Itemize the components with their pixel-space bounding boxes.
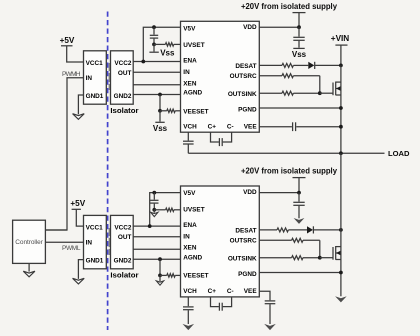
wire PWMH to IN bbox=[45, 78, 83, 230]
junction V5V/ENA (bottom) bbox=[148, 224, 152, 228]
ground arrow (controller) bbox=[23, 271, 35, 277]
svg-text:VCH: VCH bbox=[183, 124, 197, 131]
svg-text:+20V from isolated supply: +20V from isolated supply bbox=[241, 167, 337, 176]
capacitor C6 (V5V bypass bottom) bbox=[150, 193, 158, 210]
junction gate node bbox=[318, 91, 322, 95]
svg-text:IN: IN bbox=[86, 240, 93, 247]
isolator U1 left box bbox=[84, 51, 107, 104]
svg-text:ENA: ENA bbox=[183, 57, 197, 64]
junction DESAT/+VIN bbox=[339, 64, 343, 68]
wire V5V rail bbox=[143, 27, 180, 61]
gate driver IC U2 bbox=[181, 21, 260, 132]
svg-text:VEESET: VEESET bbox=[183, 109, 208, 116]
capacitor C3 (VEE) bbox=[259, 122, 341, 131]
transistor Q1 bbox=[333, 65, 341, 153]
svg-text:OUT: OUT bbox=[118, 70, 132, 77]
junction VDD node bbox=[297, 25, 301, 29]
svg-text:PWMH: PWMH bbox=[62, 71, 81, 78]
ground arrow (GND1 top) bbox=[73, 114, 85, 120]
svg-text:GND1: GND1 bbox=[86, 258, 104, 265]
junction DESAT/drain (bottom) bbox=[339, 228, 343, 232]
junction VEESET node bbox=[158, 109, 162, 113]
wire XEN bbox=[133, 84, 180, 86]
wire GND2-AGND bbox=[133, 94, 180, 96]
junction AGND node (bottom) bbox=[158, 257, 162, 261]
svg-text:DESAT: DESAT bbox=[235, 227, 256, 234]
Vss symbol (VEESET) bbox=[153, 111, 168, 133]
svg-text:UVSET: UVSET bbox=[183, 207, 204, 214]
svg-text:OUTSINK: OUTSINK bbox=[228, 256, 257, 263]
wire VDD (bottom) bbox=[259, 192, 299, 194]
svg-text:IN: IN bbox=[86, 75, 93, 82]
svg-text:VCC2: VCC2 bbox=[114, 60, 131, 67]
svg-text:DESAT: DESAT bbox=[235, 63, 256, 70]
svg-text:XEN: XEN bbox=[183, 245, 197, 252]
resistor R9 (OUTSRC bottom) bbox=[259, 238, 320, 242]
svg-text:VCC1: VCC1 bbox=[86, 60, 103, 67]
junction V5V/ENA bbox=[141, 60, 145, 64]
diode D2 (DESAT bottom) bbox=[307, 226, 341, 233]
wire gate bbox=[320, 92, 333, 94]
+20V supply bar (bottom) bbox=[293, 178, 306, 193]
wire OUT-IN (bottom) bbox=[133, 236, 180, 238]
capacitor C8 (VEE bottom) bbox=[259, 291, 275, 324]
Vss arrow (VEESET bottom) bbox=[156, 275, 163, 285]
svg-text:Vss: Vss bbox=[153, 124, 168, 133]
capacitor C1 (V5V bypass) bbox=[150, 27, 158, 44]
gate driver IC U4 bbox=[181, 186, 260, 297]
junction VDD node (bottom) bbox=[297, 191, 301, 195]
isolation barrier dashed line bbox=[107, 12, 109, 331]
isolator U3 right box bbox=[111, 215, 134, 268]
junction LOAD bbox=[339, 151, 343, 155]
controller block bbox=[13, 220, 46, 263]
wire XEN (bottom) bbox=[133, 248, 180, 250]
svg-text:LOAD: LOAD bbox=[388, 149, 410, 158]
+5V supply (top) bbox=[60, 36, 84, 62]
svg-text:PGND: PGND bbox=[238, 271, 257, 278]
svg-text:VCC2: VCC2 bbox=[114, 225, 131, 232]
svg-text:Isolator: Isolator bbox=[110, 106, 138, 115]
svg-text:VCC1: VCC1 bbox=[86, 225, 103, 232]
svg-text:VDD: VDD bbox=[243, 24, 257, 31]
svg-text:Vss: Vss bbox=[160, 48, 175, 57]
resistor R4 (OUTSRC) bbox=[259, 74, 320, 78]
capacitor C4 (VCH) bbox=[183, 132, 194, 153]
wire PGND bbox=[259, 107, 341, 109]
svg-text:C+: C+ bbox=[208, 124, 217, 131]
controller ground stub bbox=[28, 263, 30, 271]
svg-text:OUT: OUT bbox=[118, 234, 132, 241]
svg-text:V5V: V5V bbox=[183, 25, 196, 32]
diode D1 (DESAT) bbox=[308, 62, 341, 69]
junction V5V cap tap (bottom) bbox=[152, 191, 156, 195]
wire VCC2-ENA bbox=[133, 61, 180, 63]
capacitor C10 (C+/C- flying bottom) bbox=[211, 297, 232, 311]
svg-text:OUTSRC: OUTSRC bbox=[230, 237, 257, 244]
svg-text:VCH: VCH bbox=[183, 288, 197, 295]
Vss arrow (UVSET bottom) bbox=[151, 210, 158, 217]
capacitor C9 (VCH bottom) bbox=[183, 297, 194, 324]
capacitor C2 (VDD bypass) bbox=[293, 27, 304, 48]
wire controller PWML bbox=[45, 241, 83, 243]
svg-text:VDD: VDD bbox=[243, 189, 257, 196]
+5V supply (bottom) bbox=[70, 199, 85, 226]
wire V5V rail (bottom) bbox=[150, 193, 181, 227]
junction AGND node bbox=[158, 93, 162, 97]
resistor R7 (VEESET bottom) bbox=[160, 274, 181, 277]
isolator U3 left box bbox=[84, 215, 107, 268]
svg-text:OUTSINK: OUTSINK bbox=[228, 91, 257, 98]
svg-text:Controller: Controller bbox=[15, 239, 43, 246]
resistor R10 (OUTSINK bottom) bbox=[259, 256, 320, 260]
svg-text:GND2: GND2 bbox=[114, 258, 132, 265]
svg-text:Vss: Vss bbox=[292, 50, 307, 59]
svg-text:ENA: ENA bbox=[183, 222, 197, 229]
svg-text:GND1: GND1 bbox=[86, 93, 104, 100]
svg-text:GND2: GND2 bbox=[114, 93, 132, 100]
junction VEE node bbox=[339, 125, 343, 129]
junction V5V cap tap bbox=[152, 25, 156, 29]
+VIN supply bar bbox=[335, 45, 347, 65]
wire PGND (bottom) bbox=[259, 272, 341, 274]
junction gate node (bottom) bbox=[318, 256, 322, 260]
+20V supply bar (top) bbox=[293, 13, 306, 28]
ground arrow (VCH bottom) bbox=[183, 324, 195, 330]
wire OUTSRC down to gate node bbox=[319, 76, 321, 94]
svg-text:+20V from isolated supply: +20V from isolated supply bbox=[241, 2, 337, 11]
Vss arrow (VDD cap bottom) bbox=[294, 218, 305, 224]
svg-text:PWML: PWML bbox=[62, 245, 81, 252]
junction PGND/source bbox=[339, 106, 343, 110]
svg-text:+5V: +5V bbox=[60, 36, 75, 45]
svg-text:AGND: AGND bbox=[183, 90, 202, 97]
resistor R2 (VEESET) bbox=[160, 109, 181, 112]
capacitor C5 (C+/C- flying) bbox=[211, 132, 232, 146]
junction UVSET node bbox=[152, 43, 156, 47]
resistor R8 (DESAT bottom) bbox=[259, 228, 307, 232]
svg-text:UVSET: UVSET bbox=[183, 42, 204, 49]
junction VEESET node (bottom) bbox=[158, 274, 162, 278]
ground arrow (PGND bottom) bbox=[335, 296, 347, 302]
svg-text:VEE: VEE bbox=[244, 124, 258, 131]
svg-text:C+: C+ bbox=[208, 288, 217, 295]
svg-text:+VIN: +VIN bbox=[331, 34, 350, 43]
wire OUTSRC down to gate node (bottom) bbox=[319, 240, 321, 257]
resistor R3 (DESAT) bbox=[259, 63, 308, 67]
svg-text:Isolator: Isolator bbox=[110, 271, 138, 280]
svg-text:PGND: PGND bbox=[238, 106, 257, 113]
svg-text:IN: IN bbox=[183, 234, 190, 241]
resistor R1 (UVSET) bbox=[154, 43, 181, 46]
isolator U1 right box bbox=[111, 51, 134, 104]
wire VCC2-ENA (bottom) bbox=[133, 225, 180, 227]
svg-text:OUTSRC: OUTSRC bbox=[230, 73, 257, 80]
wire AGND to VEESET node (bottom) bbox=[159, 259, 161, 275]
Vss symbol (VDD cap) bbox=[292, 48, 307, 59]
svg-text:AGND: AGND bbox=[183, 254, 202, 261]
svg-text:C-: C- bbox=[227, 124, 234, 131]
wire VDD bbox=[259, 26, 299, 28]
svg-text:+5V: +5V bbox=[70, 199, 85, 208]
svg-text:VEESET: VEESET bbox=[183, 273, 208, 280]
ground arrow (GND1 bottom) bbox=[73, 278, 85, 284]
wire controller PWMH bbox=[45, 229, 67, 231]
wire GND2-AGND (bottom) bbox=[133, 258, 180, 260]
svg-text:V5V: V5V bbox=[183, 190, 196, 197]
svg-text:C-: C- bbox=[227, 288, 234, 295]
Vss symbol (UVSET) bbox=[149, 44, 175, 57]
wire GND1 down bbox=[78, 95, 83, 114]
svg-text:VEE: VEE bbox=[244, 288, 258, 295]
wire AGND to VEESET node bbox=[159, 95, 161, 111]
wire gate (bottom) bbox=[320, 257, 333, 259]
junction UVSET node (bottom) bbox=[152, 208, 156, 212]
wire LOAD rail bbox=[188, 152, 384, 154]
resistor R5 (OUTSINK) bbox=[259, 91, 320, 95]
svg-text:IN: IN bbox=[183, 69, 190, 76]
barrier grey marks bbox=[109, 63, 110, 255]
capacitor C7 (VDD bypass bottom) bbox=[293, 193, 304, 219]
resistor R6 (UVSET bottom) bbox=[154, 208, 180, 211]
junction PGND/source (bottom) bbox=[339, 271, 343, 275]
transistor Q2 bbox=[333, 153, 341, 296]
wire OUT-IN bbox=[133, 71, 180, 73]
ground arrow (VEE bottom) bbox=[264, 324, 276, 330]
svg-text:XEN: XEN bbox=[183, 80, 197, 87]
wire GND1 down (bottom) bbox=[78, 260, 83, 279]
